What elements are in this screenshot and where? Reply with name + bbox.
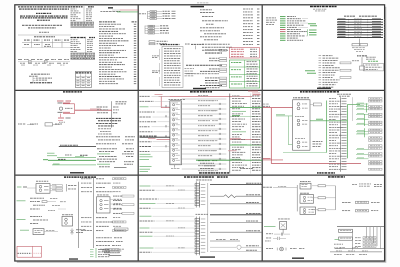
wire 1 label [246, 182, 261, 185]
vertical junction line A [65, 184, 67, 191]
title page paragraph [18, 6, 70, 9]
panel grid vertical divider 2 [261, 5, 263, 260]
green note right of list [308, 23, 317, 26]
panel grid horizontal divider 2 [15, 174, 384, 176]
bottom left boxed label 1 [339, 229, 353, 232]
lower right component block [364, 61, 384, 71]
index legend red line [120, 9, 138, 11]
abbreviation table lower right [71, 37, 96, 60]
comb feed wire [337, 226, 384, 228]
red label lower [228, 149, 237, 152]
bottom row labels [334, 253, 367, 256]
main red feed wire [75, 109, 112, 111]
bottom long wire 2 [330, 251, 382, 252]
relay box E label [300, 192, 309, 195]
page reference list right [243, 9, 259, 45]
bottom left boxed label 2 [339, 237, 353, 240]
fuse feed wire top red [58, 103, 75, 104]
green bracket right 3 [363, 128, 365, 137]
table caption [34, 36, 55, 37]
cluster 3 rows [17, 216, 49, 224]
relay cluster 3 [297, 141, 307, 148]
panel footer R2C2 [199, 172, 229, 173]
mid right row 2 with boxed label [342, 210, 378, 212]
relay cluster 2 [297, 119, 307, 126]
central switch box lower [195, 217, 205, 256]
green pair lower [305, 70, 316, 73]
hot at all times red table [229, 47, 259, 58]
panel title R3C2 [184, 176, 228, 177]
green system rows [43, 153, 96, 165]
green wire right 2 [230, 144, 262, 146]
red labels top right R2C2 [248, 91, 261, 96]
switch bus label [196, 179, 212, 182]
title note rows R1C3 [313, 9, 326, 12]
left note block [266, 18, 277, 25]
right connector rows [232, 96, 261, 171]
green wire to relay 2 [276, 114, 293, 144]
cross component [70, 228, 85, 234]
panel footer R1C3 [317, 88, 331, 89]
index header row [99, 20, 137, 23]
panel title R1C3 [310, 6, 337, 7]
sheet number label above border [197, 2, 208, 3]
component box C [33, 229, 58, 235]
connector face table bottom [75, 71, 91, 87]
panel title R1C2 [191, 6, 205, 7]
boxed label row top R3C1 right [115, 228, 129, 230]
hot in run green table [229, 60, 259, 88]
panel title R2C2 [190, 91, 212, 92]
green rows lower left [140, 154, 153, 172]
title line year [36, 13, 51, 14]
right label rows upper [97, 107, 120, 114]
bottom long wire 1 [335, 247, 384, 248]
output wire 2 with resistor [210, 194, 262, 197]
right list bus vertical [339, 97, 341, 172]
upper right label rows [200, 9, 232, 50]
lower left row 3 [265, 240, 271, 243]
right list rows [329, 98, 382, 171]
relay box E [300, 195, 314, 204]
central switch box upper [195, 181, 205, 207]
bold wire into cluster [140, 136, 170, 138]
green bracket right 2 [363, 114, 365, 126]
left label rows R3C2 [140, 186, 195, 253]
fuse detail table header [160, 44, 179, 45]
cluster 2 green label [17, 199, 26, 202]
component box A label [36, 180, 48, 183]
box A left label [17, 187, 36, 188]
index legend tick [112, 9, 120, 11]
red bottom feed wire [271, 163, 361, 165]
mid extra rows R3C1 [48, 198, 66, 211]
date line [39, 31, 49, 34]
fuse feed wire bottom red [58, 112, 75, 114]
green bus vertical [346, 105, 348, 159]
junction vertical right of boxes [335, 186, 337, 210]
right connector rows R3C1 [81, 178, 134, 232]
index entry rows [99, 24, 136, 84]
component box B [62, 216, 73, 226]
green label left of box G [264, 225, 276, 228]
right rows mid bottom [96, 237, 123, 245]
red label above fuse circuit [57, 100, 71, 103]
cluster bottom stub [171, 165, 179, 169]
panel grid vertical divider 1 [137, 5, 139, 260]
fuse table left labels [152, 49, 160, 86]
green mark lower [335, 238, 340, 241]
long bus vertical 2 [93, 177, 95, 248]
relay cluster 3 label [295, 137, 305, 140]
green wire full width [196, 159, 262, 161]
abbreviation table upper right [71, 6, 95, 28]
right column vertical bus [110, 101, 112, 127]
panel title R3C1 [64, 176, 96, 177]
red wire into cluster [157, 139, 170, 141]
group 1 left label [139, 12, 146, 15]
cluster internal components [172, 103, 180, 162]
harness header labels [344, 15, 377, 18]
relay module label [293, 96, 309, 99]
panel footer R3C3 [292, 258, 304, 259]
top right note rows [352, 184, 382, 187]
title line subtitle [37, 20, 50, 21]
panel footer R2C3 [317, 172, 335, 173]
green table bottom right [90, 248, 119, 258]
component box B label [62, 213, 73, 216]
wire color code list [280, 16, 308, 40]
red stub lower left [263, 158, 283, 160]
wire marking legend strip [18, 59, 70, 65]
index title [108, 7, 113, 8]
green bracket list [308, 29, 317, 35]
panel footer R3C1 [69, 258, 78, 259]
red wire right [230, 138, 258, 139]
panel footer R3C2 [200, 256, 215, 257]
output wire 6 [210, 230, 262, 232]
address line 1 [22, 25, 62, 26]
cluster output wires [182, 99, 227, 169]
right label rows lower [97, 148, 134, 167]
green link rows right [356, 103, 369, 159]
lower left row 1 [266, 233, 290, 236]
capacitor symbols column [219, 103, 220, 170]
fuse detail table [162, 47, 183, 88]
cluster label above box [169, 98, 185, 101]
circuit rows middle column [186, 49, 227, 88]
relay box right pill [310, 103, 321, 106]
cluster box [170, 101, 182, 165]
relay cluster 2 label [295, 115, 304, 118]
fuse red vertical link [74, 104, 76, 114]
output wire 7 with symbols [210, 239, 240, 241]
relay box 3 right labels [313, 141, 323, 147]
junction vertical left [296, 185, 298, 211]
red feed wire horizontal [263, 107, 293, 109]
green wire right 1 [230, 107, 262, 109]
red stub label [148, 137, 156, 140]
inline connector symbols right of boxes [312, 185, 336, 211]
output wire 4 dark [210, 213, 262, 215]
comb vertical drops [367, 227, 381, 249]
relay block top middle [185, 44, 204, 50]
fuse group 3 [149, 41, 168, 45]
output wire 5 [210, 221, 262, 223]
panel footer R1C2 [193, 88, 206, 89]
fuse group 2 with brace [145, 25, 169, 34]
bold label rows mid right [96, 118, 121, 127]
red feed top [155, 94, 253, 108]
green wire label [230, 158, 241, 161]
box A output wires [50, 184, 63, 192]
right list header [337, 94, 351, 97]
mid label rows [198, 95, 218, 171]
ground distribution red box [17, 246, 42, 257]
ground strap dashed [18, 252, 32, 254]
small component box G [278, 219, 290, 234]
wire label explanation tree [29, 74, 52, 84]
revision table [22, 39, 71, 48]
single component drop [352, 55, 376, 70]
vertical from boxed label 1 [351, 231, 353, 250]
green bottom horizontal [283, 152, 327, 154]
left mini rows in middle column [185, 68, 195, 76]
panel title R3C3 [328, 176, 345, 177]
green label box B [20, 229, 29, 232]
title line model bold [20, 16, 68, 19]
ignition switch row [18, 123, 62, 126]
mid right row 1 with boxed label [342, 201, 380, 203]
small text below box [59, 121, 65, 124]
panel title R2C3 [300, 91, 339, 92]
panel footer R2C1 [70, 172, 84, 173]
green bus top link [347, 104, 360, 106]
panel grid horizontal divider 1 [15, 89, 384, 91]
red feed vertical [270, 108, 272, 164]
relay module box [293, 100, 311, 150]
red labels below fuse circuit [58, 114, 71, 121]
relay box D [300, 183, 311, 189]
left stub rows [140, 96, 170, 152]
index legend green line [117, 11, 138, 13]
address line 2 [28, 27, 56, 28]
component box H [97, 197, 111, 213]
right column header [116, 101, 127, 104]
component box H label [97, 194, 109, 197]
green vertical near module [326, 101, 328, 153]
right column separator [249, 94, 251, 174]
panel title R2C1 [63, 91, 82, 92]
note text block bottom [100, 249, 124, 256]
separator rule [18, 34, 71, 36]
relay box F [300, 207, 316, 214]
output wire 1 dark [210, 184, 262, 186]
second bus vertical R3C2 [207, 183, 209, 252]
output wire 8 with lamp [210, 245, 262, 249]
output wire 3 [210, 202, 262, 204]
right list second vertical [351, 97, 353, 121]
fuse group 1 with brace [148, 11, 176, 20]
gap filler rows R2C1 [98, 128, 112, 134]
bottom rows under green wire [200, 163, 253, 169]
relay box D label [300, 180, 311, 183]
green row mid R2C2 [230, 115, 258, 116]
fuse lamp symbol [59, 107, 72, 110]
harness drop connector [352, 39, 368, 52]
green wire from relay module [310, 119, 347, 121]
green bracket right 1 [365, 103, 367, 112]
harness wire rows [337, 18, 385, 38]
wire bus vertical [229, 94, 231, 174]
box H output wires [110, 199, 122, 209]
relay cluster 1 [297, 103, 308, 110]
left feed label [263, 104, 270, 107]
central switch box lower label [196, 213, 208, 216]
feed wire black [59, 145, 96, 147]
lower left row 2 capacitor [266, 237, 286, 240]
component box A [36, 184, 50, 194]
index note line [100, 10, 120, 13]
long bus vertical 1 [78, 182, 80, 248]
output wire 9 [210, 250, 262, 252]
mid label rows [96, 136, 135, 144]
red wire label [90, 108, 101, 111]
lower left lamp cluster [266, 247, 304, 251]
cluster 2 rows [30, 198, 56, 210]
left input rows [263, 186, 297, 188]
capacitor marks before cluster [165, 105, 166, 147]
red dash right [34, 252, 42, 254]
bottom right connector stack [355, 237, 376, 248]
underline right lower [114, 167, 127, 169]
labels after junction A [68, 185, 76, 189]
left text rows near comb [334, 244, 343, 249]
component list lower left [319, 55, 352, 87]
